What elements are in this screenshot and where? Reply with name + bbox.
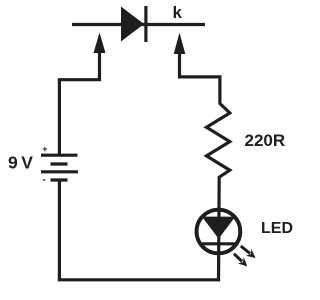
svg-text:+: + — [42, 144, 47, 154]
svg-text:220R: 220R — [245, 131, 286, 150]
svg-text:-: - — [43, 175, 46, 186]
svg-text:k: k — [173, 3, 183, 22]
svg-text:9 V: 9 V — [8, 153, 33, 173]
svg-text:LED: LED — [261, 220, 293, 237]
